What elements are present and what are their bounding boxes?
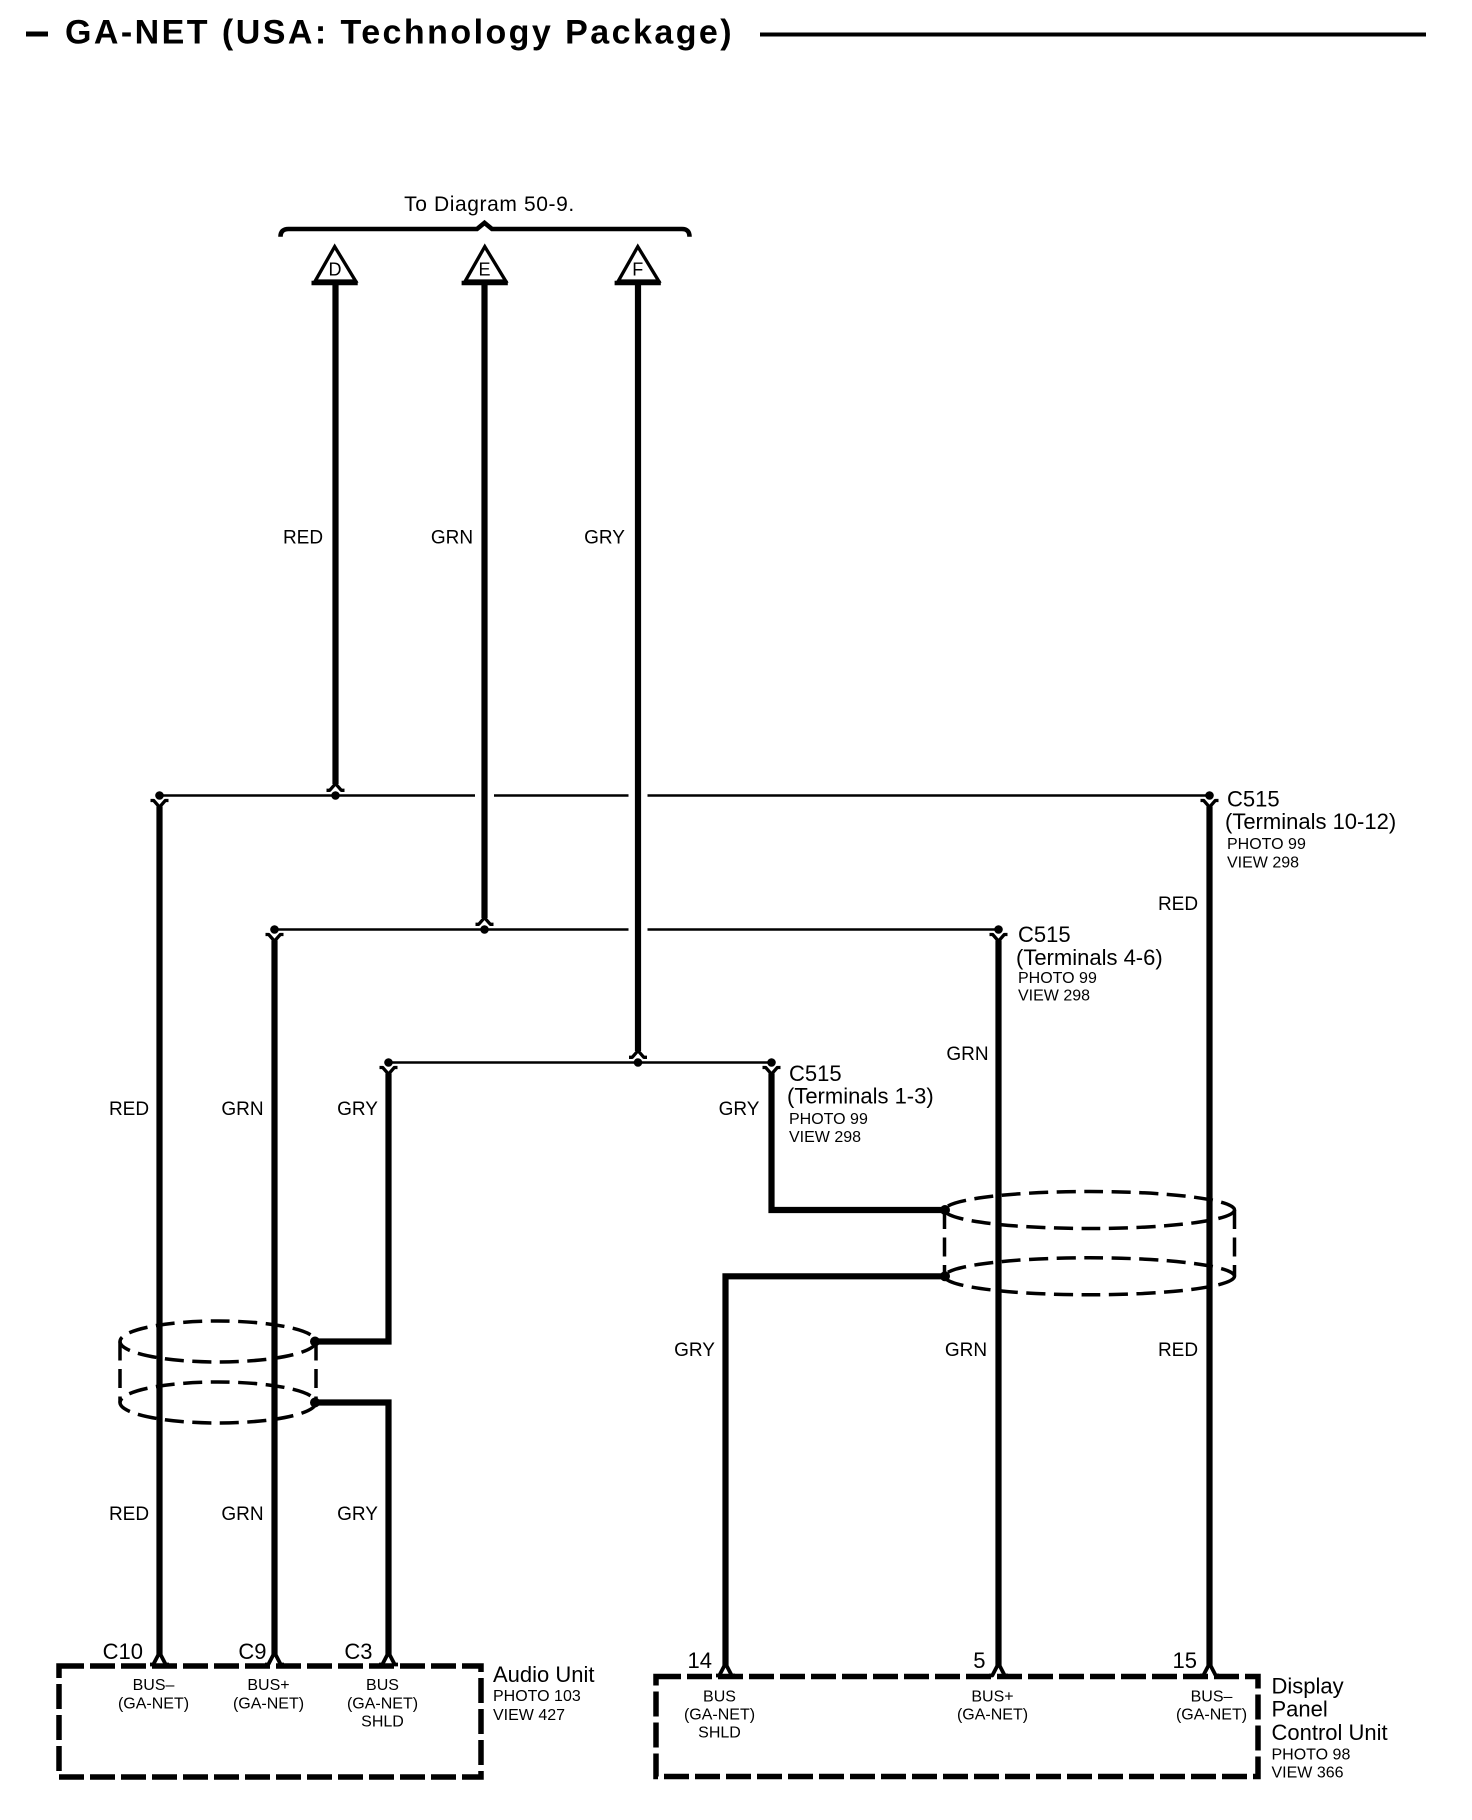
wire RED left [156, 807, 162, 1655]
svg-text:GRN: GRN [946, 1044, 988, 1065]
fork F junction [629, 1051, 647, 1058]
svg-text:PHOTO 103: PHOTO 103 [493, 1688, 581, 1705]
svg-text:RED: RED [283, 528, 323, 549]
svg-text:F: F [632, 260, 643, 280]
junction dots bus1 [155, 791, 1214, 800]
svg-text:PHOTO 99: PHOTO 99 [1018, 970, 1097, 987]
svg-text:GRN: GRN [431, 528, 473, 549]
svg-text:(GA-NET): (GA-NET) [957, 1707, 1028, 1724]
svg-text:VIEW 427: VIEW 427 [493, 1707, 565, 1724]
wire GRN from E [481, 281, 487, 918]
svg-text:(GA-NET): (GA-NET) [1176, 1707, 1247, 1724]
svg-text:GRN: GRN [945, 1340, 987, 1361]
fork bus1 right [1201, 801, 1219, 808]
svg-text:(Terminals 1-3): (Terminals 1-3) [787, 1084, 934, 1109]
svg-text:(GA-NET): (GA-NET) [118, 1695, 189, 1712]
wire GRN right [995, 941, 1001, 1666]
svg-text:BUS–: BUS– [133, 1677, 175, 1694]
svg-text:GRN: GRN [221, 1504, 263, 1525]
svg-text:15: 15 [1173, 1648, 1197, 1673]
svg-text:VIEW 298: VIEW 298 [1018, 988, 1090, 1005]
label Display Panel Control Unit [1272, 1674, 1388, 1782]
svg-text:C9: C9 [238, 1639, 266, 1664]
svg-text:C515: C515 [1227, 787, 1280, 812]
svg-text:RED: RED [109, 1504, 149, 1525]
svg-text:BUS+: BUS+ [971, 1689, 1013, 1706]
svg-text:Audio Unit: Audio Unit [493, 1662, 595, 1687]
svg-text:PHOTO 99: PHOTO 99 [789, 1111, 868, 1128]
shield coil right dots [940, 1205, 950, 1281]
svg-text:C515: C515 [789, 1061, 842, 1086]
junction dots bus2 [270, 925, 1003, 934]
display pin 5 name [957, 1689, 1028, 1724]
wire GRY from F [635, 281, 641, 1051]
wire GRY left upper to shield [315, 1074, 389, 1342]
svg-text:VIEW 298: VIEW 298 [1227, 855, 1299, 872]
svg-text:Control Unit: Control Unit [1272, 1720, 1388, 1745]
fork bus3 left [380, 1068, 398, 1075]
audio pin C9 name [233, 1677, 304, 1712]
svg-text:Panel: Panel [1272, 1697, 1328, 1722]
fork display 5 [989, 1664, 1008, 1676]
connector triangle D [312, 247, 358, 283]
label C515 terminals 4-6 [1016, 922, 1163, 1005]
svg-text:GRY: GRY [719, 1099, 760, 1120]
display pin 15 name [1176, 1689, 1247, 1724]
svg-text:BUS: BUS [366, 1677, 399, 1694]
fork audio C3 [379, 1653, 398, 1665]
svg-text:BUS+: BUS+ [247, 1677, 289, 1694]
wire GRN left [271, 941, 277, 1655]
svg-text:(Terminals 4-6): (Terminals 4-6) [1016, 945, 1163, 970]
connector triangle F [615, 247, 661, 283]
svg-text:PHOTO 99: PHOTO 99 [1227, 836, 1306, 853]
svg-text:GRY: GRY [337, 1504, 378, 1525]
bus line C515 terminals 10-12 [160, 794, 1210, 797]
display panel control unit box [656, 1677, 1258, 1777]
svg-text:(GA-NET): (GA-NET) [684, 1707, 755, 1724]
shield coil left [120, 1321, 316, 1423]
wire GRY right upper to shield [772, 1074, 946, 1211]
svg-text:C3: C3 [344, 1639, 372, 1664]
wire RED from D [332, 281, 338, 784]
fork audio C9 [265, 1653, 284, 1665]
title dash [26, 32, 48, 37]
svg-text:RED: RED [1158, 1340, 1198, 1361]
fork audio C10 [150, 1653, 169, 1665]
svg-text:C515: C515 [1018, 922, 1071, 947]
fork D junction [327, 784, 345, 791]
svg-text:VIEW 366: VIEW 366 [1272, 1765, 1344, 1782]
display pin 14 name [684, 1689, 755, 1742]
svg-text:BUS: BUS [703, 1689, 736, 1706]
bus line C515 terminals 1-3 [389, 1061, 772, 1064]
fork display 14 [716, 1664, 735, 1676]
svg-text:GRN: GRN [221, 1099, 263, 1120]
svg-text:C10: C10 [103, 1639, 143, 1664]
svg-text:GRY: GRY [337, 1099, 378, 1120]
svg-text:(Terminals 10-12): (Terminals 10-12) [1225, 809, 1396, 834]
shield coil left dots [310, 1337, 320, 1408]
svg-text:GA-NET (USA: Technology Packag: GA-NET (USA: Technology Package) [65, 14, 734, 52]
audio pin C10 name [118, 1677, 189, 1712]
shield coil right [945, 1192, 1235, 1295]
bracket [281, 223, 690, 237]
svg-text:PHOTO 98: PHOTO 98 [1272, 1747, 1351, 1764]
svg-text:RED: RED [1158, 894, 1198, 915]
wire GRY right lower from shield [726, 1276, 946, 1665]
connector triangle E [462, 247, 508, 283]
svg-text:D: D [329, 260, 342, 280]
svg-text:(GA-NET): (GA-NET) [233, 1695, 304, 1712]
label C515 terminals 10-12 [1225, 787, 1396, 872]
audio pin C3 name [347, 1677, 418, 1731]
fork bus1 left [151, 801, 169, 808]
svg-text:VIEW 298: VIEW 298 [789, 1129, 861, 1146]
svg-text:RED: RED [109, 1099, 149, 1120]
svg-text:5: 5 [973, 1648, 985, 1673]
fork bus3 right [763, 1068, 781, 1075]
svg-text:14: 14 [688, 1648, 712, 1673]
title rule [760, 33, 1426, 37]
svg-text:Display: Display [1272, 1674, 1344, 1699]
wire RED right [1206, 807, 1212, 1666]
fork display 15 [1200, 1664, 1219, 1676]
bus line C515 terminals 4-6 [275, 928, 999, 931]
label C515 terminals 1-3 [787, 1061, 934, 1146]
fork E junction [476, 918, 494, 925]
svg-text:BUS–: BUS– [1191, 1689, 1233, 1706]
svg-text:To Diagram 50-9.: To Diagram 50-9. [404, 193, 575, 216]
svg-text:GRY: GRY [674, 1340, 715, 1361]
svg-text:SHLD: SHLD [698, 1725, 741, 1742]
fork bus2 left [266, 935, 284, 942]
svg-text:GRY: GRY [584, 528, 625, 549]
svg-text:E: E [478, 260, 490, 280]
wire GRY left lower from shield [315, 1403, 389, 1655]
junction dots bus3 [384, 1058, 776, 1067]
audio unit box [59, 1666, 481, 1777]
label Audio Unit [493, 1662, 595, 1724]
svg-text:SHLD: SHLD [361, 1714, 404, 1731]
svg-text:(GA-NET): (GA-NET) [347, 1695, 418, 1712]
fork bus2 right [990, 935, 1008, 942]
